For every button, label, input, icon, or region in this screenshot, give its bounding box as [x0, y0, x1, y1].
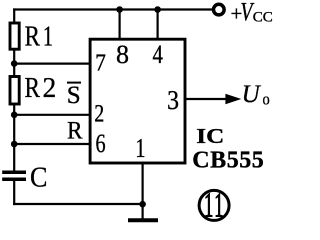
svg-text:3: 3	[167, 85, 179, 116]
arrowhead output	[225, 94, 241, 104]
capacitor C bottom plate	[2, 178, 26, 182]
wire pin 3 output	[185, 98, 227, 100]
svg-text:1: 1	[43, 21, 53, 52]
svg-text:S: S	[67, 82, 81, 109]
wire: node C to capacitor top plate	[13, 143, 15, 171]
wire: node B to node C	[13, 114, 15, 146]
terminal +Vcc circle	[214, 4, 225, 15]
wire pin 7 (node A to IC)	[13, 62, 90, 64]
capacitor C top plate	[2, 171, 26, 175]
junction dot pin 4 on rail	[154, 6, 161, 13]
wire: R2 bottom to node B	[13, 104, 15, 117]
svg-text:2: 2	[43, 72, 57, 104]
wire pin 4 (rail to IC top)	[157, 8, 159, 39]
svg-text:C: C	[30, 160, 47, 193]
wire bottom rail (capacitor to ground node)	[13, 203, 143, 205]
svg-text:8: 8	[116, 40, 129, 69]
svg-text:4: 4	[153, 41, 164, 70]
overbar of S	[67, 82, 81, 84]
junction dot pin 8 on rail	[116, 6, 123, 13]
svg-text:1: 1	[214, 187, 223, 226]
node C junction dot	[11, 141, 18, 148]
svg-text:7: 7	[95, 49, 106, 75]
wire top rail (Vcc rail)	[13, 8, 212, 10]
resistor R2	[10, 77, 19, 105]
node A junction dot	[11, 60, 18, 67]
svg-text:R: R	[25, 20, 41, 52]
wire: R1 bottom to node A	[13, 50, 15, 65]
wire left vertical: rail to R1 top	[13, 8, 15, 22]
wire pin 2 (node B to IC)	[13, 114, 90, 116]
ground node junction dot	[139, 201, 146, 208]
IC box CB555	[90, 39, 185, 163]
svg-text:o: o	[263, 91, 270, 109]
wire pin 6 (node C to IC)	[13, 143, 90, 145]
resistor R1	[10, 23, 19, 49]
svg-text:CB555: CB555	[192, 147, 263, 173]
ground symbol	[128, 218, 158, 222]
wire: node A to R2 top	[13, 63, 15, 77]
svg-text:R: R	[25, 71, 41, 103]
figure number circle	[199, 190, 229, 220]
svg-text:IC: IC	[196, 125, 224, 149]
svg-text:CC: CC	[253, 10, 273, 26]
svg-text:1: 1	[135, 134, 145, 163]
wire pin 1 down to ground	[142, 163, 144, 220]
svg-text:1: 1	[204, 187, 213, 226]
wire pin 8 (rail to IC top)	[118, 8, 120, 39]
node B junction dot	[11, 112, 18, 119]
svg-text:R: R	[67, 117, 83, 145]
svg-text:2: 2	[94, 99, 104, 127]
wire: capacitor bottom plate down	[13, 181, 15, 205]
svg-text:U: U	[242, 81, 262, 108]
svg-text:6: 6	[96, 129, 106, 158]
